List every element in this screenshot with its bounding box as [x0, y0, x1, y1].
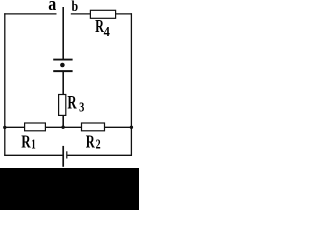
battery long plate [62, 146, 64, 167]
resistor R4 [90, 10, 115, 18]
capacitor top plate [53, 59, 72, 61]
battery short plate [66, 151, 68, 158]
resistor R1 [25, 123, 46, 131]
junction dot left [3, 126, 6, 129]
junction dot right [130, 126, 133, 129]
svg-text:b: b [72, 0, 79, 15]
wire: middle rail left segment [5, 126, 25, 128]
wire: capacitor to R3 [62, 72, 64, 95]
svg-text:1: 1 [31, 136, 36, 151]
wire: center tap vertical between a and b down to capacitor [62, 7, 64, 60]
svg-text:4: 4 [104, 24, 110, 39]
wire: left vertical rail [4, 13, 6, 156]
svg-text:R: R [86, 132, 95, 152]
capacitor charge dot [60, 63, 65, 68]
resistor R3 [59, 95, 66, 116]
black censored bar [0, 168, 139, 210]
svg-text:R: R [67, 92, 76, 113]
wire: middle rail right segment [105, 126, 132, 128]
junction dot center [61, 126, 64, 129]
svg-text:2: 2 [96, 136, 101, 151]
capacitor bottom plate [53, 70, 72, 72]
wire: top horizontal from b to R4 [71, 13, 91, 15]
resistor R2 [82, 123, 105, 131]
wire: middle rail center segment [45, 126, 82, 128]
wire: bottom rail left segment [4, 154, 62, 156]
wire: R4 to top-right corner [116, 13, 132, 15]
wire: top-left horizontal to terminal a [4, 13, 56, 15]
svg-text:3: 3 [79, 100, 84, 115]
wire: bottom rail right segment [67, 154, 132, 156]
wire: R3 to middle rail [62, 115, 64, 128]
svg-text:R: R [21, 132, 31, 152]
svg-text:a: a [48, 0, 56, 15]
wire: right vertical rail [130, 13, 132, 156]
